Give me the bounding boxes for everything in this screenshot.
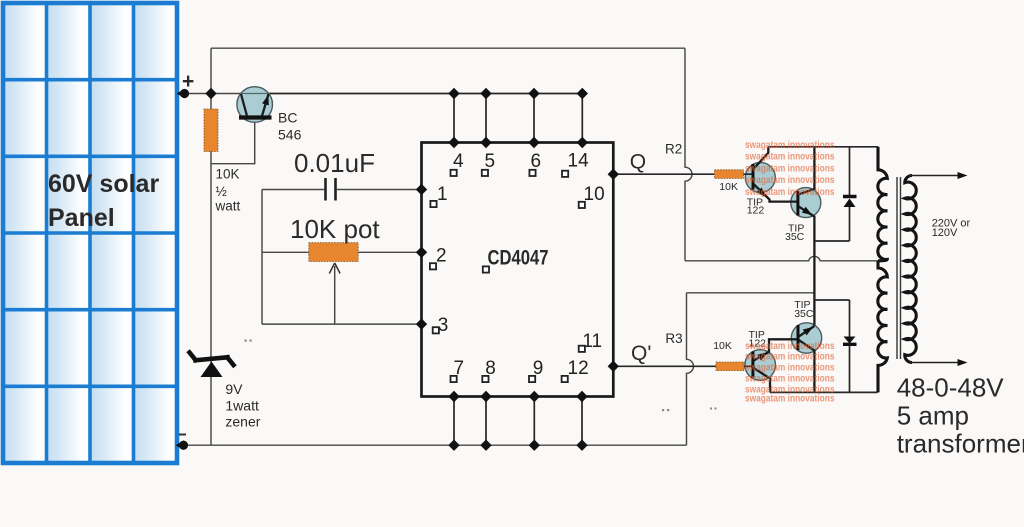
svg-text:BC: BC	[278, 110, 297, 126]
svg-text:0.01uF: 0.01uF	[294, 148, 375, 178]
svg-text:122: 122	[747, 205, 765, 217]
svg-text:10K: 10K	[719, 181, 738, 193]
svg-text:10K: 10K	[216, 167, 240, 182]
svg-text:10K pot: 10K pot	[290, 214, 380, 244]
svg-text:6: 6	[531, 151, 542, 172]
svg-text:1: 1	[437, 184, 448, 205]
svg-text:5: 5	[485, 151, 496, 172]
svg-text:60V solar: 60V solar	[48, 170, 159, 198]
svg-text:swagatam innovations: swagatam innovations	[745, 140, 835, 151]
svg-text:+: +	[182, 70, 194, 93]
svg-text:10K: 10K	[713, 340, 732, 352]
svg-text:swagatam innovations: swagatam innovations	[745, 363, 835, 374]
svg-text:10: 10	[584, 184, 605, 205]
svg-text:swagatam innovations: swagatam innovations	[745, 187, 835, 198]
svg-text:swagatam innovations: swagatam innovations	[745, 163, 835, 174]
svg-text:½: ½	[216, 184, 227, 199]
svg-text:CD4047: CD4047	[488, 247, 549, 270]
svg-text:swagatam innovations: swagatam innovations	[745, 175, 835, 186]
svg-text:swagatam innovations: swagatam innovations	[745, 341, 835, 352]
svg-text:2: 2	[436, 246, 447, 267]
svg-text:swagatam innovations: swagatam innovations	[745, 152, 835, 163]
svg-text:5 amp: 5 amp	[897, 401, 969, 431]
svg-text:1watt: 1watt	[225, 398, 259, 414]
svg-text:swagatam innovations: swagatam innovations	[745, 394, 835, 405]
svg-text:R3: R3	[665, 331, 682, 346]
svg-text:120V: 120V	[932, 227, 958, 239]
svg-text:9V: 9V	[225, 381, 243, 397]
svg-text:Panel: Panel	[48, 204, 115, 232]
svg-text:12: 12	[568, 358, 589, 379]
svg-text:35C: 35C	[794, 308, 814, 320]
svg-text:zener: zener	[225, 414, 260, 430]
svg-text:transformer: transformer	[897, 429, 1024, 459]
svg-text:48-0-48V: 48-0-48V	[897, 373, 1005, 403]
svg-text:watt: watt	[215, 199, 241, 214]
svg-text:swagatam innovations: swagatam innovations	[745, 352, 835, 363]
svg-text:14: 14	[568, 151, 590, 172]
svg-text:35C: 35C	[785, 231, 805, 243]
svg-text:4: 4	[453, 151, 464, 172]
svg-text:546: 546	[278, 127, 302, 143]
svg-text:Q: Q	[630, 151, 646, 174]
svg-text:R2: R2	[665, 142, 682, 157]
svg-text:swagatam innovations: swagatam innovations	[745, 374, 835, 385]
svg-text:Q': Q'	[631, 342, 651, 365]
